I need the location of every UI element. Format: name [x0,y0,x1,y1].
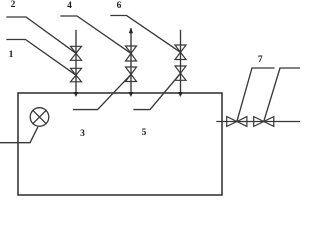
arrow pipe P1 into tank [74,92,78,96]
valve V7b (outlet, right) [254,117,274,127]
valve V3 (lower, stack 2) [126,67,137,82]
svg-text:4: 4 [67,1,72,11]
valve V4 (upper, stack 2) [126,46,137,61]
svg-text:5: 5 [142,128,147,138]
wire leader 7 right [264,68,300,121]
svg-text:1: 1 [9,50,14,60]
arrow pipe P2 into tank [129,92,133,96]
svg-text:2: 2 [11,0,16,10]
blower B1 (crossed circle) [30,108,49,127]
valve V6 (upper, stack 3) [175,45,186,60]
wire feed pipe to blower [0,128,38,143]
wire pipe P2 [130,29,132,94]
valve V7a (outlet, left) [227,117,247,127]
arrow pipe P2 top [129,28,132,33]
wire leader 7 left [237,68,274,121]
wire pipe P1 [75,31,77,94]
valve V5 (lower, stack 3) [175,66,186,80]
valve V2 (upper, stack 1) [71,46,82,60]
svg-text:3: 3 [80,129,85,139]
svg-text:7: 7 [258,55,263,65]
wire leader 1 [7,40,76,76]
wire leader 6 [111,16,181,53]
wire leader 4 [61,16,131,53]
wire pipe P3 [180,31,182,94]
svg-text:6: 6 [117,1,122,11]
wire leader 5 [134,73,181,109]
wire outlet pipe [217,121,300,123]
wire leader 3 [74,74,131,109]
valve V1 (lower, stack 1) [71,68,82,82]
arrow pipe P3 into tank [179,92,183,96]
tank T1 [18,93,222,195]
wire leader 2 [7,17,76,53]
